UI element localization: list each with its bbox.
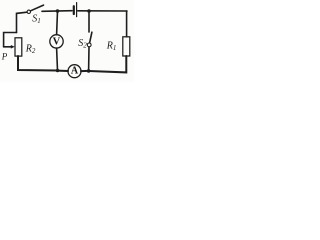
wire left jog to slider	[4, 33, 17, 47]
switch S2 pivot	[87, 43, 91, 47]
slider arrow P	[4, 46, 13, 48]
wire S1 to battery	[42, 10, 72, 13]
switch S2 blade	[90, 32, 92, 43]
voltmeter branch wire bottom	[56, 48, 59, 70]
wire R1 to bottom-right corner	[89, 56, 126, 72]
voltmeter V	[50, 35, 63, 48]
node junction top (voltmeter tap)	[56, 9, 60, 13]
resistor R1	[123, 37, 130, 56]
svg-text:P: P	[1, 51, 8, 61]
svg-text:S2: S2	[78, 38, 87, 49]
switch S2 branch wire top	[88, 11, 90, 32]
switch S2 branch wire bottom	[88, 47, 90, 71]
svg-text:V: V	[53, 37, 61, 48]
battery cell	[73, 6, 75, 14]
node junction top (S2 tap)	[87, 9, 91, 13]
svg-text:A: A	[71, 65, 79, 76]
switch S1	[27, 10, 30, 13]
svg-text:R1: R1	[106, 40, 117, 52]
node junction bottom (voltmeter tap)	[56, 69, 60, 73]
wire battery to top-right corner	[78, 10, 127, 12]
wire ammeter right side	[81, 70, 89, 72]
svg-text:R2: R2	[25, 44, 36, 56]
wire top-left corner to S1	[17, 12, 27, 32]
node junction bottom (S2 tap)	[87, 69, 91, 73]
wire right vertical down to R1	[126, 11, 128, 37]
svg-text:S1: S1	[32, 14, 41, 25]
wire bottom to left corner up to R2	[18, 56, 58, 71]
voltmeter branch wire top	[56, 11, 59, 35]
ammeter A	[68, 65, 81, 78]
rheostat R2 body	[15, 38, 22, 56]
wire ammeter to bottom-left	[58, 70, 69, 72]
